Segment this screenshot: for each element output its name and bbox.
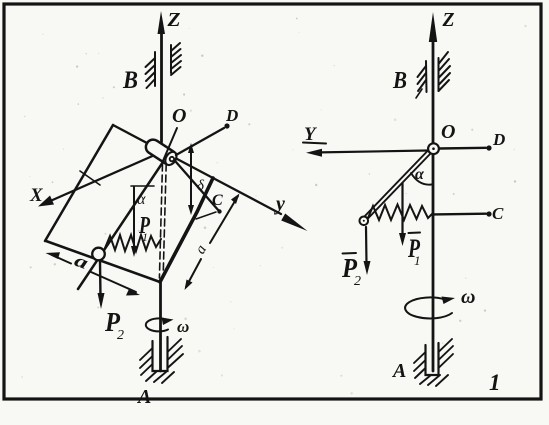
- leader from C: [196, 212, 216, 219]
- point D dot (right): [486, 145, 491, 150]
- bearing B (top): left wall: [154, 52, 156, 86]
- P2 arrow (left): [99, 261, 102, 298]
- hatches right: [439, 52, 449, 64]
- dimension a (right side): [210, 196, 238, 243]
- line O-C: [176, 162, 219, 211]
- bearing A hatches left: [140, 348, 153, 360]
- point C dot (right): [486, 211, 491, 216]
- hatches left: [418, 66, 427, 77]
- svg-text:δ: δ: [197, 178, 205, 194]
- tick crossing T-L edge: [80, 171, 100, 185]
- hatches left: [414, 352, 426, 363]
- Z axis arrowhead: [158, 11, 166, 34]
- dimension a (left side): [52, 255, 71, 264]
- ball (right): [360, 217, 369, 226]
- Z axis arrowhead (right): [429, 12, 437, 42]
- hinge O (right): [428, 143, 439, 154]
- svg-text:ω: ω: [461, 286, 475, 308]
- svg-text:D: D: [225, 106, 238, 125]
- omega arc (right): [405, 297, 452, 318]
- bearing B hatches right: [171, 43, 180, 51]
- svg-text:2: 2: [117, 328, 124, 343]
- plate edge T-R continuing as y axis: [113, 125, 281, 214]
- svg-text:C: C: [212, 192, 223, 209]
- svg-text:2: 2: [354, 274, 361, 289]
- P1 overbar (right): [409, 232, 421, 235]
- plate edge B-R (thick): [160, 178, 213, 282]
- P1 arrow (right): [401, 183, 403, 234]
- leader line from O label: [163, 128, 178, 162]
- hatches bottom: [420, 375, 431, 384]
- svg-text:1: 1: [414, 253, 421, 268]
- svg-text:α: α: [137, 191, 146, 208]
- Y underline: [303, 143, 326, 144]
- cylinder sleeve at O: [143, 137, 179, 167]
- spring (right): [368, 205, 433, 221]
- svg-text:Z: Z: [166, 9, 180, 31]
- line to C (right): [434, 212, 486, 215]
- bearing A hatches right: [168, 339, 182, 352]
- shaft (right): [432, 30, 435, 371]
- dashed hidden axis (double line): [159, 164, 162, 278]
- bearing A (bottom left figure): socket: [153, 337, 168, 371]
- svg-text:a: a: [192, 242, 210, 256]
- point C dot: [217, 209, 221, 213]
- P1 vertical line (left): [133, 187, 135, 250]
- svg-text:y: y: [274, 193, 285, 215]
- hatches right: [439, 339, 453, 352]
- plate edge L-B: [46, 241, 160, 282]
- bearing A (right): socket: [426, 343, 439, 375]
- svg-text:B: B: [392, 68, 407, 94]
- omega arc (left): [146, 318, 168, 331]
- bearing B hatches left: [146, 58, 156, 67]
- line O-D (right): [439, 147, 486, 150]
- svg-text:1: 1: [142, 230, 148, 244]
- shaft lower segment: [159, 280, 162, 371]
- Y axis (right): [313, 151, 428, 153]
- ball (left figure): [92, 248, 105, 261]
- svg-text:a: a: [72, 250, 91, 273]
- line to D: [176, 128, 224, 155]
- svg-text:ω: ω: [177, 317, 189, 336]
- bearing A hatches bottom: [146, 371, 157, 381]
- alpha arc (right): [411, 173, 432, 185]
- y axis arrowhead: [281, 214, 307, 232]
- alpha mark: horizontal tick: [131, 185, 154, 187]
- svg-text:A: A: [391, 360, 406, 382]
- svg-text:Z: Z: [442, 9, 455, 31]
- svg-text:O: O: [441, 121, 455, 143]
- shaft upper segment: [160, 30, 163, 142]
- bearing B (right): right wall: [438, 58, 440, 91]
- P2 arrow (right): [365, 227, 368, 264]
- bearing B (top): right wall: [170, 45, 172, 73]
- plate edge T-L: [45, 125, 113, 241]
- delta dimension line: [190, 148, 192, 210]
- svg-text:C: C: [492, 204, 504, 223]
- P2 overbar (right): [343, 252, 357, 255]
- X axis arrowhead: [38, 196, 54, 207]
- rod through ball: [78, 162, 163, 289]
- X axis: [48, 154, 157, 202]
- svg-text:A: A: [136, 386, 151, 408]
- svg-text:X: X: [29, 185, 44, 206]
- point D dot: [224, 123, 229, 128]
- rod (double line, right): [365, 151, 428, 216]
- spring (left figure): [105, 235, 161, 251]
- svg-text:B: B: [122, 67, 138, 94]
- svg-text:D: D: [492, 130, 505, 149]
- svg-text:α: α: [415, 166, 425, 183]
- svg-text:1: 1: [489, 370, 501, 395]
- svg-text:Y: Y: [304, 124, 318, 145]
- svg-text:O: O: [172, 105, 186, 127]
- bearing B (right): left wall: [425, 61, 428, 92]
